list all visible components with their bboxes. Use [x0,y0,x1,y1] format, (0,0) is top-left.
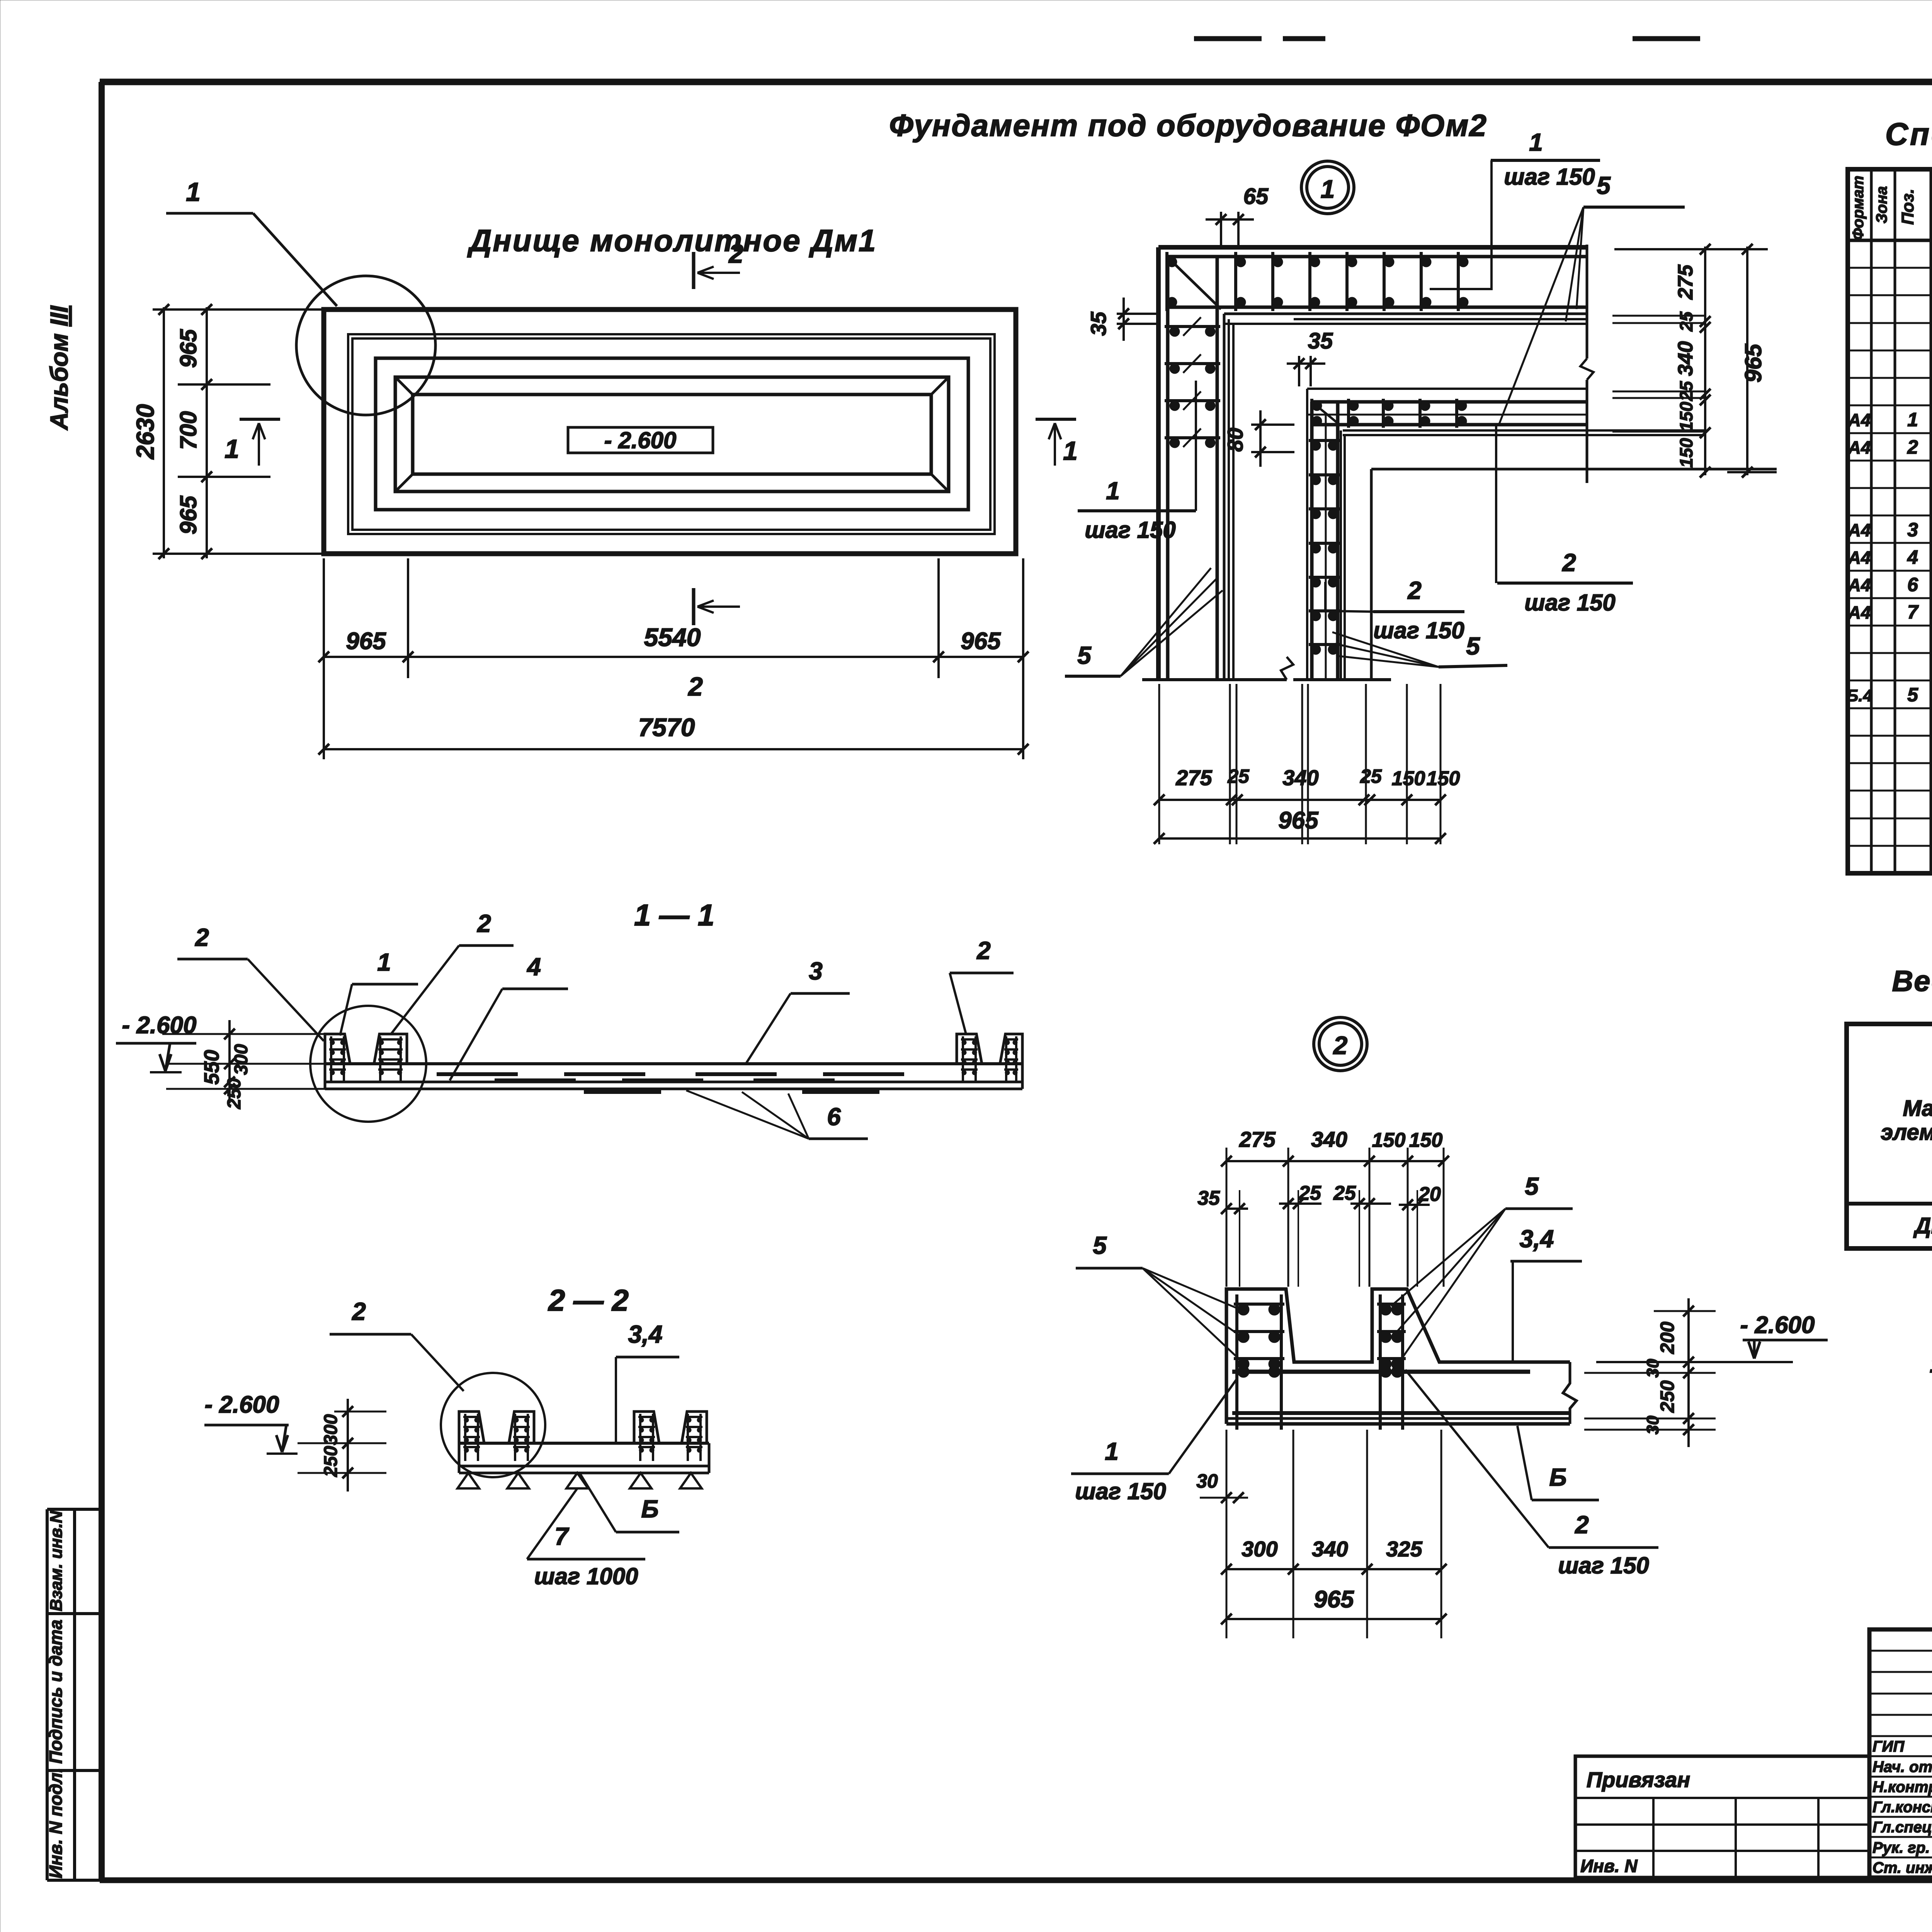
svg-text:2: 2 [687,672,703,701]
svg-text:А4: А4 [1848,548,1871,568]
svg-text:Привязан: Привязан [1587,1767,1690,1792]
svg-text:А4: А4 [1848,602,1871,622]
svg-text:80: 80 [1223,428,1247,452]
svg-text:7: 7 [554,1522,570,1550]
svg-text:340: 340 [1312,1537,1348,1561]
svg-text:Зона: Зона [1873,186,1890,224]
svg-text:Спецификация днища монолитно: Спецификация днища монолитного Дм1 [1885,117,1932,152]
svg-text:1: 1 [224,434,239,464]
svg-text:2: 2 [728,239,743,269]
svg-text:2: 2 [352,1298,366,1325]
svg-text:340: 340 [1311,1127,1347,1151]
svg-text:4: 4 [1907,546,1918,568]
svg-text:5: 5 [1907,684,1918,706]
svg-text:25: 25 [1227,765,1250,787]
svg-text:Ст. инж.: Ст. инж. [1872,1859,1932,1876]
svg-text:150: 150 [1392,767,1425,790]
svg-text:2: 2 [195,923,209,951]
svg-text:Подпись и дата: Подпись и дата [46,1620,66,1764]
svg-text:965: 965 [1314,1586,1354,1613]
svg-text:35: 35 [1308,328,1333,354]
svg-text:Взам. инв.N: Взам. инв.N [47,1510,66,1611]
svg-text:шаг 150: шаг 150 [1075,1478,1166,1504]
svg-text:25: 25 [1298,1182,1321,1204]
svg-text:300: 300 [1242,1537,1277,1561]
svg-text:2: 2 [1575,1511,1589,1539]
svg-text:5: 5 [1525,1172,1539,1200]
svg-text:300: 300 [321,1414,341,1445]
svg-text:150: 150 [1676,401,1696,431]
svg-text:Марка: Марка [1903,1096,1932,1121]
svg-text:1: 1 [1907,409,1918,430]
svg-text:шаг 150: шаг 150 [1524,590,1616,616]
svg-text:30: 30 [1196,1470,1218,1492]
svg-text:- 2.600: - 2.600 [1740,1312,1815,1338]
svg-text:Гл.спец.: Гл.спец. [1872,1819,1932,1836]
svg-text:шаг 150: шаг 150 [1504,164,1595,190]
svg-text:шаг 150: шаг 150 [1085,517,1176,543]
svg-text:- 2.600: - 2.600 [604,427,677,453]
svg-text:шаг 150: шаг 150 [1373,617,1464,643]
svg-text:Поз.: Поз. [1898,189,1917,224]
svg-text:2: 2 [477,910,491,937]
svg-text:965: 965 [346,628,386,655]
svg-text:6: 6 [1907,574,1918,595]
svg-text:Альбом III: Альбом III [45,305,73,430]
svg-text:1: 1 [1063,436,1078,466]
svg-text:Б: Б [1549,1463,1566,1491]
svg-text:2630: 2630 [131,404,159,459]
svg-text:5: 5 [1466,632,1480,660]
svg-text:2: 2 [1407,577,1422,604]
svg-text:30: 30 [1643,1415,1662,1434]
svg-text:Дм1: Дм1 [1913,1213,1932,1238]
svg-text:150: 150 [1372,1129,1406,1151]
svg-text:340: 340 [1282,765,1318,790]
svg-text:200: 200 [1656,1321,1678,1354]
svg-text:25: 25 [1676,311,1696,332]
svg-text:2: 2 [976,937,991,964]
svg-text:Гл.конст.: Гл.конст. [1872,1799,1932,1816]
svg-text:5: 5 [1597,172,1611,199]
svg-text:1: 1 [1529,128,1543,156]
svg-text:Фундамент под оборудование ФОм: Фундамент под оборудование ФОм2 [889,108,1487,143]
svg-text:5: 5 [1093,1231,1107,1259]
svg-text:Инв. N подл.: Инв. N подл. [46,1768,66,1878]
svg-text:3: 3 [809,957,823,985]
svg-text:7570: 7570 [638,713,695,742]
svg-text:Формат: Формат [1850,176,1867,240]
svg-text:150: 150 [1676,438,1696,468]
svg-text:965: 965 [961,628,1001,655]
svg-text:340: 340 [1674,341,1697,376]
svg-text:250: 250 [224,1078,245,1109]
svg-text:3,4: 3,4 [1520,1225,1554,1253]
svg-text:325: 325 [1386,1537,1422,1561]
svg-text:шаг 150: шаг 150 [1558,1553,1649,1578]
svg-text:Ведомость расхода стали на: Ведомость расхода стали на элемент, кг [1892,965,1932,998]
svg-text:2: 2 [1562,549,1576,577]
svg-text:3: 3 [1907,519,1918,541]
svg-text:Б: Б [641,1495,658,1523]
svg-text:250: 250 [321,1446,341,1477]
svg-text:150: 150 [1409,1129,1443,1151]
svg-text:Днище монолитное Дм1: Днище монолитное Дм1 [467,223,877,258]
svg-text:700: 700 [175,411,201,450]
svg-text:275: 275 [1674,264,1697,300]
svg-text:1: 1 [186,177,201,207]
svg-text:25: 25 [1360,765,1382,787]
svg-text:Инв. N: Инв. N [1580,1856,1638,1876]
svg-text:А4: А4 [1848,410,1871,430]
svg-text:35: 35 [1197,1187,1220,1209]
svg-text:1. На плане днища сетки у: 1. На плане днища сетки условно не показ… [1930,1349,1932,1378]
svg-text:30: 30 [1643,1359,1662,1378]
svg-text:Рук. гр.: Рук. гр. [1872,1839,1930,1856]
svg-text:965: 965 [1740,343,1766,383]
svg-text:20: 20 [1418,1183,1441,1206]
svg-text:А4: А4 [1848,437,1871,457]
svg-text:1: 1 [377,948,391,976]
svg-text:550: 550 [200,1050,223,1085]
svg-text:35: 35 [1086,311,1111,336]
svg-text:250: 250 [1656,1380,1678,1413]
svg-text:1: 1 [1106,477,1120,505]
svg-text:65: 65 [1243,184,1269,209]
svg-text:3,4: 3,4 [628,1320,663,1348]
svg-text:1 — 1: 1 — 1 [634,898,714,932]
svg-text:1: 1 [1321,175,1335,203]
svg-text:ГИП: ГИП [1872,1738,1905,1755]
svg-text:965: 965 [1278,807,1319,834]
svg-text:Б.4: Б.4 [1846,686,1872,705]
svg-text:300: 300 [231,1044,252,1075]
svg-text:275: 275 [1239,1127,1276,1151]
svg-text:- 2.600: - 2.600 [204,1391,279,1418]
svg-text:2: 2 [1333,1031,1348,1060]
svg-text:6: 6 [827,1103,841,1131]
svg-text:1: 1 [1105,1437,1119,1465]
svg-text:965: 965 [175,495,201,534]
svg-text:25: 25 [1333,1182,1356,1204]
svg-text:5540: 5540 [644,623,701,651]
svg-text:7: 7 [1907,601,1919,623]
svg-text:шаг 1000: шаг 1000 [534,1563,638,1589]
svg-text:А4: А4 [1848,520,1871,540]
svg-text:Нач. отд.: Нач. отд. [1872,1759,1932,1776]
svg-text:25: 25 [1676,381,1696,401]
svg-text:2 — 2: 2 — 2 [548,1283,629,1317]
svg-text:А4: А4 [1848,575,1871,595]
svg-text:150: 150 [1427,767,1460,790]
svg-text:965: 965 [175,328,201,368]
svg-text:4: 4 [526,953,541,981]
svg-text:2: 2 [1907,436,1918,458]
svg-text:элемента: элемента [1881,1120,1932,1145]
svg-text:5: 5 [1077,641,1092,669]
svg-text:275: 275 [1175,765,1212,790]
svg-text:Н.контр.: Н.контр. [1872,1779,1932,1796]
